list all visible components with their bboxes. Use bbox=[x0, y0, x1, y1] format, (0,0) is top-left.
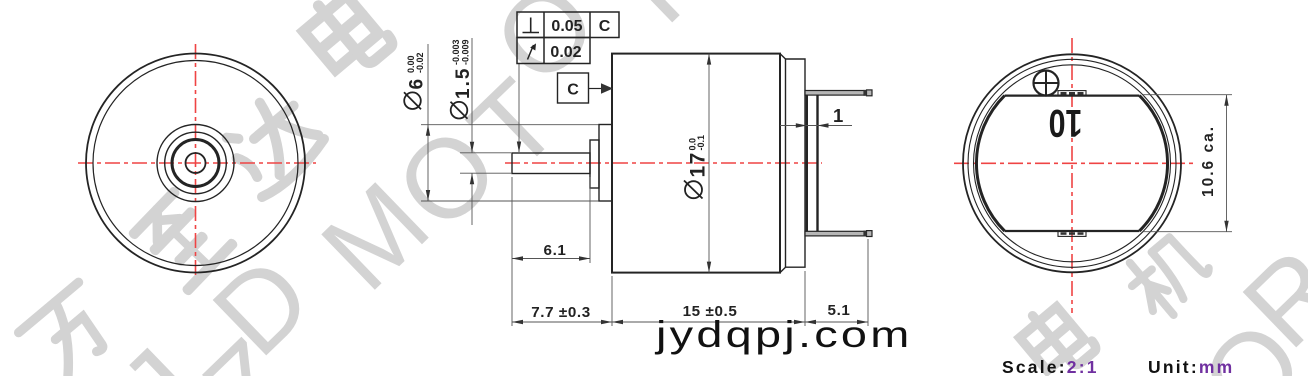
feature control frames bbox=[517, 12, 619, 103]
rear inner circle bbox=[974, 65, 1171, 262]
front view group bbox=[78, 44, 316, 278]
bottom flat edge bbox=[1005, 230, 1140, 232]
svg-text:0.02: 0.02 bbox=[550, 44, 581, 61]
svg-text:-0.003: -0.003 bbox=[451, 39, 461, 65]
6.1 arrows bbox=[512, 256, 523, 260]
dia1.5 arrows bbox=[470, 142, 474, 153]
front housing inner circle bbox=[93, 61, 298, 266]
svg-text:17: 17 bbox=[687, 151, 710, 177]
svg-text:1: 1 bbox=[833, 105, 844, 126]
front boss bbox=[599, 125, 612, 202]
pin tip separators bbox=[864, 90, 867, 237]
datum C box bbox=[558, 73, 589, 103]
top terminal block bbox=[1058, 91, 1086, 96]
perpendicularity frame bbox=[517, 12, 619, 38]
rear middle circle bbox=[968, 59, 1176, 267]
runout frame bbox=[517, 38, 590, 64]
site caption jydqpj.com bbox=[654, 313, 913, 355]
dia17 label bbox=[684, 135, 710, 199]
front housing outer circle bbox=[86, 54, 305, 273]
rear housing bbox=[786, 59, 806, 267]
dia6 arrows bbox=[426, 125, 430, 136]
side view group bbox=[505, 54, 872, 273]
side view centerline bbox=[505, 162, 822, 164]
10.6 dimension lines bbox=[1143, 95, 1232, 232]
svg-text:6: 6 bbox=[407, 79, 428, 90]
perpendicularity symbol bbox=[523, 32, 540, 34]
svg-text:0.05: 0.05 bbox=[551, 18, 582, 35]
svg-text:-0.1: -0.1 bbox=[696, 135, 706, 151]
svg-text:C: C bbox=[567, 82, 579, 99]
svg-text:10: 10 bbox=[1049, 101, 1083, 144]
terminal pins bbox=[805, 90, 872, 237]
dia1.5 label bbox=[451, 39, 475, 118]
end cap right edge bbox=[816, 96, 818, 232]
svg-text:R: R bbox=[595, 0, 740, 46]
magnet arc left bbox=[976, 96, 1004, 231]
datum C triangle bbox=[601, 83, 613, 94]
svg-text:-0.02: -0.02 bbox=[415, 52, 425, 73]
front view centerlines bbox=[78, 44, 316, 278]
svg-text:Unit:mm: Unit:mm bbox=[1148, 357, 1234, 376]
svg-text:7.7 ±0.3: 7.7 ±0.3 bbox=[531, 304, 591, 321]
rear view centerlines bbox=[954, 38, 1197, 313]
chamfer edge line bbox=[785, 59, 787, 267]
dimension arrowheads bbox=[426, 54, 868, 325]
bottom extension lines bbox=[511, 177, 513, 326]
runout leader arrow bbox=[517, 142, 521, 153]
bottom terminal block bbox=[1058, 231, 1086, 236]
rear view group bbox=[954, 38, 1197, 313]
dia6 dimension line bbox=[427, 44, 429, 201]
drawing annotation texts bbox=[404, 18, 850, 321]
dia17 dimension line bbox=[708, 54, 710, 273]
6.1 dimension line bbox=[512, 258, 590, 260]
svg-text:jydqpj.com: jydqpj.com bbox=[654, 313, 913, 355]
body top chamfer bbox=[780, 54, 786, 59]
7.7 arrows bbox=[512, 320, 523, 324]
datum leader line bbox=[589, 88, 602, 90]
svg-text:6.1: 6.1 bbox=[544, 242, 567, 259]
top flat edge bbox=[1005, 94, 1140, 96]
body bottom chamfer bbox=[780, 267, 786, 272]
dimension linework bbox=[421, 38, 868, 326]
cap 1mm dimension line bbox=[780, 125, 852, 127]
15 arrows bbox=[612, 320, 623, 324]
svg-text:C: C bbox=[599, 18, 611, 35]
svg-text:1.5: 1.5 bbox=[453, 67, 474, 99]
runout leader line bbox=[518, 64, 520, 153]
dia1.5 dimension lines bbox=[471, 38, 473, 153]
cap 1mm arrows bbox=[796, 123, 807, 127]
dia6 extension lines bbox=[421, 124, 599, 126]
10.6 ca. label bbox=[1200, 125, 1217, 197]
rear outer circle bbox=[963, 54, 1181, 272]
end cap left edge bbox=[806, 96, 808, 232]
front bearing ring bbox=[172, 140, 219, 187]
bushing step bbox=[590, 140, 599, 188]
motor body bbox=[612, 54, 780, 273]
svg-text:10.6 ca.: 10.6 ca. bbox=[1200, 125, 1217, 197]
dia17 arrows bbox=[707, 54, 711, 65]
terminal block contacts bbox=[1061, 92, 1084, 235]
front bushing circle bbox=[165, 132, 227, 194]
10.6 dimension arrows bbox=[1224, 95, 1228, 232]
front boss circle bbox=[157, 125, 234, 202]
dia1.5 extension lines bbox=[460, 152, 511, 154]
magnet arc right bbox=[1139, 96, 1167, 231]
5.1 arrows bbox=[805, 320, 816, 324]
svg-text:Scale:2:1: Scale:2:1 bbox=[1002, 357, 1099, 376]
runout symbol arrowhead bbox=[530, 42, 538, 51]
shaft bbox=[512, 153, 590, 174]
svg-text:-0.009: -0.009 bbox=[461, 39, 471, 65]
dia6 label bbox=[404, 52, 428, 109]
dimension value texts bbox=[531, 105, 850, 321]
front shaft circle bbox=[186, 153, 206, 173]
bottom dimension line bbox=[512, 321, 868, 323]
runout symbol bbox=[528, 45, 534, 60]
part marking 10 upside down bbox=[1049, 101, 1083, 144]
vent hole symbol bbox=[1034, 71, 1059, 96]
